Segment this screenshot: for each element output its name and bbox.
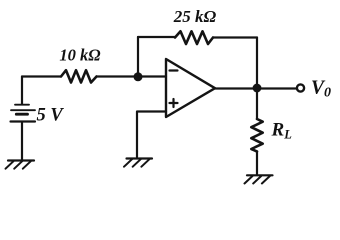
output terminal open circle [297,84,304,91]
wire feedback top right segment [213,36,257,38]
svg-text:V0: V0 [311,78,331,101]
resistor 10 kOhm zigzag [61,70,97,82]
op-amp plus sign [170,99,178,107]
wire RL bottom [256,152,258,175]
svg-text:25 kΩ: 25 kΩ [173,7,217,26]
wire RL top [256,89,258,120]
wire resistor to op-amp minus input [97,75,167,77]
op-amp U1 triangle [166,59,215,117]
node A junction dot (inverting input) [134,72,143,81]
svg-text:RL: RL [271,120,293,142]
op-amp minus sign [170,69,178,71]
resistor 25 kOhm zigzag [175,31,213,44]
ground G1 (battery) [6,161,35,169]
svg-text:10 kΩ: 10 kΩ [59,45,101,64]
wire main input y=76.5 left lead [22,75,61,77]
battery V1 top stub [21,77,23,105]
svg-text:5 V: 5 V [37,106,65,126]
battery V1 plates [11,105,36,122]
ground G2 (non-inverting input) [124,159,152,167]
wire feedback top left segment [138,36,175,38]
wire output from apex to terminal [215,87,297,89]
wire plus input to ground [137,112,166,158]
wire feedback left vertical [137,37,139,77]
battery V1 bottom stub [21,123,23,160]
wire feedback right vertical down to output node [256,38,258,89]
node B junction dot (output) [253,84,262,93]
resistor RL zigzag [251,119,262,152]
ground G3 (load) [245,175,273,183]
